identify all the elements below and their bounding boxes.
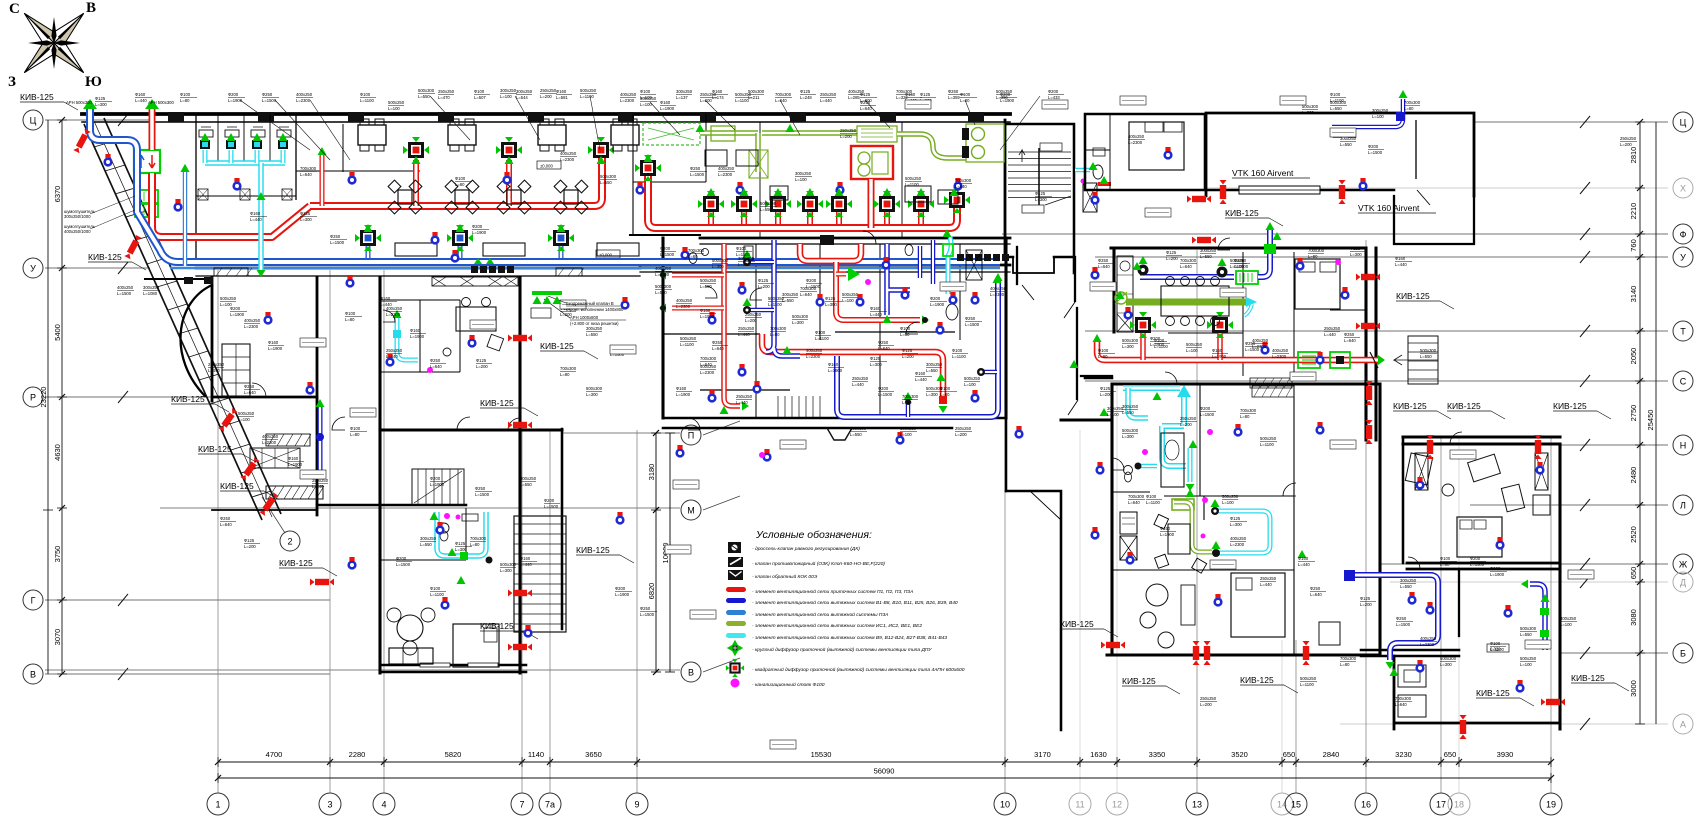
svg-text:L=300: L=300 <box>870 362 882 367</box>
svg-text:Ф250: Ф250 <box>244 384 255 389</box>
svg-text:L=440: L=440 <box>1324 332 1336 337</box>
duct red right main <box>1097 342 1378 360</box>
svg-text:Ф160: Ф160 <box>520 556 531 561</box>
KIV-125 valve 20 <box>1535 435 1542 459</box>
svg-text:L=1100: L=1100 <box>360 98 374 103</box>
svg-text:КИВ-125: КИВ-125 <box>480 621 514 631</box>
svg-text:500x250: 500x250 <box>680 336 697 341</box>
svg-text:300x250: 300x250 <box>1122 404 1139 409</box>
axis line Г <box>45 594 330 606</box>
svg-text:L=550: L=550 <box>1400 584 1412 589</box>
svg-text:Ф100: Ф100 <box>1154 338 1165 343</box>
svg-text:7: 7 <box>519 800 524 810</box>
axis line Р <box>45 391 230 403</box>
svg-text:L=200: L=200 <box>1180 422 1192 427</box>
arrow cyan stair toilet <box>1081 162 1098 184</box>
KS250 fitting <box>1264 222 1276 254</box>
svg-text:L=1100: L=1100 <box>680 342 694 347</box>
svg-text:Ф100: Ф100 <box>1146 494 1157 499</box>
svg-text:КИВ-125: КИВ-125 <box>279 558 313 568</box>
svg-text:500x250: 500x250 <box>700 278 717 283</box>
svg-text:15: 15 <box>1291 800 1301 810</box>
sewer stacks magenta <box>427 259 1341 519</box>
svg-text:L=550: L=550 <box>782 298 794 303</box>
svg-text:Ф: Ф <box>1680 229 1687 239</box>
green box cyan mid <box>943 244 958 320</box>
svg-text:3000: 3000 <box>1629 680 1638 697</box>
svg-text:L=1500: L=1500 <box>660 252 675 257</box>
svg-text:700x300: 700x300 <box>1340 656 1357 661</box>
svg-text:300x250: 300x250 <box>1372 108 1389 113</box>
svg-text:КИВ-125: КИВ-125 <box>1225 208 1259 218</box>
green damper box <box>711 126 735 141</box>
svg-text:+0,000: +0,000 <box>599 253 613 258</box>
svg-text:КИВ-125: КИВ-125 <box>198 444 232 454</box>
svg-text:L=100: L=100 <box>238 417 250 422</box>
green arrow red stub <box>318 147 327 155</box>
axis line Т right <box>1085 325 1668 337</box>
svg-text:18: 18 <box>1454 800 1464 810</box>
svg-text:Ф100: Ф100 <box>455 176 466 181</box>
duct green IS1 run a <box>700 130 758 136</box>
hatch strip below cafe toilets <box>266 434 311 446</box>
svg-text:L=396: L=396 <box>996 95 1008 100</box>
svg-text:L=1900: L=1900 <box>615 592 630 597</box>
svg-text:L=440: L=440 <box>520 562 532 567</box>
axis bubble У left <box>23 258 43 278</box>
diffuser 4APN mid 2 <box>731 191 757 217</box>
svg-text:L=300: L=300 <box>926 392 938 397</box>
KIV-125 valve 12 <box>1192 237 1216 244</box>
svg-text:L=640: L=640 <box>712 346 724 351</box>
green boxes on red main <box>1298 352 1350 368</box>
svg-text:L=2300: L=2300 <box>700 370 715 375</box>
svg-text:L=1900: L=1900 <box>288 462 303 467</box>
svg-text:- элемент вентиляционной сети: - элемент вентиляционной сети вытяжной с… <box>752 611 888 618</box>
svg-text:L=550: L=550 <box>1340 142 1352 147</box>
svg-text:Ф200: Ф200 <box>472 224 483 229</box>
svg-text:КИВ-125: КИВ-125 <box>1393 401 1427 411</box>
svg-text:300x250: 300x250 <box>1400 578 1417 583</box>
sofa lower-left block <box>389 648 433 664</box>
svg-text:L=507: L=507 <box>474 95 486 100</box>
duct cyan right trunk <box>1162 396 1186 466</box>
svg-text:L=1900: L=1900 <box>1160 532 1175 537</box>
svg-text:400x250: 400x250 <box>718 166 735 171</box>
duct navy drop 3 <box>918 246 923 278</box>
svg-text:500x300: 500x300 <box>1520 626 1537 631</box>
axis bubble 12 <box>1106 793 1128 815</box>
svg-text:Ф100: Ф100 <box>430 586 441 591</box>
svg-text:L=1100: L=1100 <box>1154 344 1168 349</box>
wall courtyard right upper <box>952 418 1006 491</box>
svg-text:L=550: L=550 <box>420 542 432 547</box>
diffusers navy loop <box>904 368 986 405</box>
svg-text:L=440: L=440 <box>738 332 750 337</box>
KIV-125 valve 18 <box>1366 420 1373 444</box>
svg-text:Ф200: Ф200 <box>1490 566 1501 571</box>
X-strip bench below cafe <box>432 277 518 286</box>
kitchen equipment boxes <box>705 150 958 204</box>
svg-text:L=550: L=550 <box>586 332 598 337</box>
wall cafe bottom right part <box>640 264 1010 267</box>
stairs bottom-right extension <box>1398 665 1426 717</box>
level tags cafe <box>537 161 620 258</box>
duct red branch b <box>672 306 724 311</box>
diffuser 4APN mid 1 <box>698 191 724 217</box>
svg-text:L=100: L=100 <box>500 94 512 99</box>
value labels extra <box>208 92 1537 667</box>
svg-text:Ф125: Ф125 <box>1360 596 1371 601</box>
duct green S-curve <box>897 134 966 158</box>
label VTK 160 Airvent 2 <box>1358 203 1436 213</box>
cafe benches row <box>395 243 639 256</box>
axis line В middle <box>45 669 680 671</box>
svg-text:L=2300: L=2300 <box>1420 642 1435 647</box>
svg-text:L=80: L=80 <box>345 317 355 322</box>
svg-text:56090: 56090 <box>874 767 895 776</box>
partition right bedroom <box>1085 114 1110 190</box>
legend title <box>755 529 872 541</box>
duct red mid riser 4 <box>807 212 813 224</box>
axis bubble 7а <box>539 793 561 815</box>
wall bottom-right v1459 <box>1458 569 1460 636</box>
KIV-125 valve 25 <box>1541 699 1565 706</box>
svg-text:L=200: L=200 <box>1100 392 1112 397</box>
svg-text:500x300: 500x300 <box>586 386 603 391</box>
svg-text:250x250: 250x250 <box>738 326 755 331</box>
kitchen table right main block <box>1161 277 1229 326</box>
arrows red right main <box>1093 334 1386 368</box>
duct cyan riser 1 <box>203 150 208 163</box>
svg-text:700x300: 700x300 <box>902 394 919 399</box>
svg-text:L=1100: L=1100 <box>815 336 829 341</box>
arrow red center drop <box>922 316 929 325</box>
desk upper room lower-left <box>456 298 504 351</box>
bed lower-left block <box>453 624 499 667</box>
svg-text:КИВ-125: КИВ-125 <box>1571 673 1605 683</box>
svg-text:2210: 2210 <box>1629 203 1638 220</box>
svg-text:250x250: 250x250 <box>1260 576 1277 581</box>
duct cyan lower-left U <box>437 512 486 556</box>
svg-text:Ф125: Ф125 <box>1100 386 1111 391</box>
svg-text:КИВ-125: КИВ-125 <box>576 545 610 555</box>
svg-text:L=1500: L=1500 <box>878 392 893 397</box>
duct steel P3A parallel <box>170 267 1000 269</box>
svg-text:Условные обозначения:: Условные обозначения: <box>755 529 872 541</box>
KIV-125 valve 15 <box>1356 274 1380 281</box>
svg-text:Ф125: Ф125 <box>476 358 487 363</box>
label KIV-125 #17 <box>1240 675 1298 693</box>
entrance bay notch <box>827 428 852 440</box>
svg-text:Ф125: Ф125 <box>1350 246 1361 251</box>
svg-text:L=1900: L=1900 <box>268 346 283 351</box>
entrance ramp diagonal <box>84 118 281 520</box>
svg-text:3520: 3520 <box>1231 750 1248 759</box>
svg-text:L=550: L=550 <box>926 368 938 373</box>
duct red mid riser 3 <box>775 212 781 224</box>
legend row 3 <box>728 570 818 580</box>
svg-text:Ф250: Ф250 <box>948 89 959 94</box>
svg-text:АРН 1000x800: АРН 1000x800 <box>570 315 599 320</box>
svg-text:700x300: 700x300 <box>955 178 972 183</box>
bed right bedroom <box>1129 122 1184 170</box>
svg-text:3350: 3350 <box>1149 750 1166 759</box>
svg-text:19: 19 <box>1546 800 1556 810</box>
svg-text:700x300: 700x300 <box>700 356 717 361</box>
svg-text:500x250: 500x250 <box>1520 656 1537 661</box>
cyan big arrow up <box>1177 385 1191 397</box>
axis bubble 14 <box>1271 793 1293 815</box>
diffuser 4APN top 3 <box>588 137 614 163</box>
axis bubble Ж right <box>1673 554 1693 574</box>
svg-text:500x300: 500x300 <box>850 426 867 431</box>
label KIV-125 #6 <box>279 558 337 576</box>
svg-text:L=1100: L=1100 <box>952 354 966 359</box>
svg-text:L=440: L=440 <box>1395 262 1407 267</box>
KIV-125 valve 1 <box>73 129 90 153</box>
svg-text:L=300: L=300 <box>1302 110 1314 115</box>
svg-text:Ф160: Ф160 <box>660 100 671 105</box>
svg-text:L=322: L=322 <box>896 95 908 100</box>
top labels row2 <box>438 89 1064 100</box>
svg-text:500x250: 500x250 <box>996 89 1013 94</box>
svg-text:L=640: L=640 <box>800 292 812 297</box>
green arrows scattered <box>181 154 1399 676</box>
svg-text:400x250: 400x250 <box>1230 536 1247 541</box>
bathtub lower right-middle <box>1124 433 1185 487</box>
svg-text:Ф100: Ф100 <box>474 89 485 94</box>
axis bubble Н right <box>1673 435 1693 455</box>
AP400 marker bathroom <box>1098 176 1111 186</box>
svg-text:L=80: L=80 <box>180 98 190 103</box>
duct navy loop riser <box>906 400 911 417</box>
svg-text:L=640: L=640 <box>1310 592 1322 597</box>
svg-text:L=2300: L=2300 <box>1272 354 1287 359</box>
svg-text:L=100: L=100 <box>842 298 854 303</box>
svg-text:КИВ-125: КИВ-125 <box>1476 688 1510 698</box>
legend row 10 <box>726 659 965 677</box>
svg-text:АРН 500x300: АРН 500x300 <box>148 100 175 105</box>
wall lower-left P-line <box>380 428 562 431</box>
duct steel riser cafe <box>183 170 188 266</box>
svg-text:700x300: 700x300 <box>560 366 577 371</box>
wall cafe right end <box>1004 120 1007 257</box>
axis bubble Т right <box>1673 321 1693 341</box>
axis bubble 17 <box>1430 793 1452 815</box>
svg-text:L=1500: L=1500 <box>1368 150 1383 155</box>
diffusers navy right apt <box>1138 256 1228 278</box>
label KIV-125 #3 <box>171 394 229 412</box>
svg-text:С: С <box>1680 376 1687 386</box>
wall right bedroom block <box>1085 114 1205 190</box>
label KIV-125 #20 <box>1060 619 1118 637</box>
staircase right of main block <box>1394 336 1438 384</box>
wall diag entry <box>1030 491 1061 520</box>
svg-text:500x250: 500x250 <box>238 411 255 416</box>
svg-text:L=550: L=550 <box>760 207 772 212</box>
green AHU dashed box <box>643 123 700 145</box>
svg-text:L=200: L=200 <box>1620 142 1632 147</box>
svg-text:17: 17 <box>1436 800 1446 810</box>
diffuser 4APN mid right end <box>944 187 970 213</box>
svg-text:L=359: L=359 <box>948 95 960 100</box>
svg-text:L=1500: L=1500 <box>396 562 411 567</box>
duct red stub <box>320 155 325 206</box>
svg-text:КИВ-125: КИВ-125 <box>480 398 514 408</box>
duct green right apt <box>1126 299 1248 306</box>
svg-text:L=640: L=640 <box>878 346 890 351</box>
diffuser 4APN top 2 <box>496 137 522 163</box>
red diffusers right main <box>1130 312 1233 338</box>
svg-text:23220: 23220 <box>39 387 48 408</box>
svg-text:L=100: L=100 <box>795 177 807 182</box>
svg-text:L=300: L=300 <box>1035 197 1047 202</box>
axis line П middle <box>562 432 680 434</box>
svg-text:L=440: L=440 <box>208 368 220 373</box>
svg-text:L=300: L=300 <box>1122 344 1134 349</box>
svg-text:- квадратный диффузор приточно: - квадратный диффузор приточной (вытяжно… <box>752 666 965 673</box>
svg-text:L=1900: L=1900 <box>1490 572 1505 577</box>
axis bubble Л right <box>1673 495 1693 515</box>
wall mid apartments right <box>1004 238 1007 418</box>
svg-text:L=1900: L=1900 <box>700 314 715 319</box>
label KIV-125 #2 <box>88 252 146 270</box>
KIV-125 valve 11 <box>1187 196 1211 203</box>
svg-text:L=640: L=640 <box>244 390 256 395</box>
cafe tables row top <box>358 119 639 151</box>
svg-text:L=2300: L=2300 <box>1128 140 1143 145</box>
svg-text:КИВ-125: КИВ-125 <box>1396 291 1430 301</box>
svg-text:Ф125: Ф125 <box>1035 191 1046 196</box>
axis bubble Р left <box>23 387 43 407</box>
svg-text:Ф200: Ф200 <box>430 476 441 481</box>
svg-text:Ф200: Ф200 <box>878 386 889 391</box>
svg-text:В: В <box>688 667 694 677</box>
svg-text:Ф125: Ф125 <box>1230 516 1241 521</box>
svg-text:L=80: L=80 <box>902 400 912 405</box>
svg-text:700x300: 700x300 <box>470 536 487 541</box>
svg-text:Ф250: Ф250 <box>475 486 486 491</box>
wall bottom-right extension <box>1394 656 1560 729</box>
round table lower-left block <box>387 608 435 655</box>
AHU green unit left <box>134 150 160 173</box>
svg-text:L=1100: L=1100 <box>1300 682 1314 687</box>
svg-text:- элемент вентиляционной сети: - элемент вентиляционной сети вытяжных с… <box>752 599 958 606</box>
axis bubble 11 <box>1069 793 1091 815</box>
staircase lower-left internal <box>412 469 464 505</box>
duct green IS1 run b <box>762 130 857 136</box>
KIV-125 valve 24 <box>1460 715 1467 739</box>
svg-text:- дроссель-клапан равного регу: - дроссель-клапан равного регулирования … <box>752 546 860 552</box>
svg-text:700x300: 700x300 <box>1128 494 1145 499</box>
legend row 5 <box>726 598 958 606</box>
svg-text:L=2300: L=2300 <box>560 157 575 162</box>
svg-text:300x250: 300x250 <box>926 362 943 367</box>
diffusers navy branches <box>743 250 752 314</box>
partition kitchen mid <box>760 122 902 238</box>
terrace window band <box>1239 186 1320 194</box>
axis line 7 <box>521 430 523 793</box>
svg-text:L=1500: L=1500 <box>1470 562 1485 567</box>
svg-text:700x300: 700x300 <box>1395 696 1412 701</box>
duct navy loop branch <box>984 370 997 375</box>
svg-text:500x250: 500x250 <box>1186 342 1203 347</box>
svg-text:Ф125: Ф125 <box>870 356 881 361</box>
axis line У <box>45 262 150 274</box>
wall terrace extension <box>1394 196 1474 244</box>
svg-text:L=300: L=300 <box>1350 252 1362 257</box>
svg-text:VTK 160 Airvent: VTK 160 Airvent <box>1232 168 1294 178</box>
svg-text:Ф250: Ф250 <box>712 340 723 345</box>
svg-text:300x250: 300x250 <box>1200 248 1217 253</box>
dimension chain left <box>39 117 67 677</box>
svg-text:700x300: 700x300 <box>1308 248 1325 253</box>
svg-text:500x300: 500x300 <box>760 201 777 206</box>
green filter box <box>857 126 897 142</box>
svg-text:250x250: 250x250 <box>540 88 557 93</box>
svg-text:L=550: L=550 <box>520 482 532 487</box>
svg-text:700x300: 700x300 <box>688 248 705 253</box>
svg-text:L=200: L=200 <box>540 94 552 99</box>
svg-text:L=2300: L=2300 <box>806 354 821 359</box>
svg-text:L=300: L=300 <box>1230 522 1242 527</box>
svg-text:Ф100: Ф100 <box>640 89 651 94</box>
svg-text:Ф250: Ф250 <box>220 516 231 521</box>
svg-text:300x250: 300x250 <box>143 285 160 290</box>
duct red mid riser 6 <box>884 212 890 224</box>
svg-text:L=2300: L=2300 <box>1230 542 1245 547</box>
svg-text:L=550: L=550 <box>600 180 612 185</box>
label KIV-125 #14 <box>1447 401 1505 419</box>
duct cyan stub stair toilet <box>1075 168 1090 173</box>
svg-text:L=1100: L=1100 <box>1490 647 1504 652</box>
svg-text:2480: 2480 <box>1629 467 1638 484</box>
svg-text:L=100: L=100 <box>1560 622 1572 627</box>
partitions mid apartments <box>756 244 960 418</box>
svg-text:300x250: 300x250 <box>586 326 603 331</box>
arrow navy drop 4b <box>994 273 1003 281</box>
svg-text:L=2300: L=2300 <box>718 172 733 177</box>
duct red mid riser 7 <box>918 212 924 224</box>
svg-text:700x300: 700x300 <box>1240 408 1257 413</box>
svg-text:3170: 3170 <box>1034 750 1051 759</box>
svg-text:Ф125: Ф125 <box>800 89 811 94</box>
svg-text:Ф160: Ф160 <box>380 296 391 301</box>
diffuser 4APN mid 7 <box>908 191 934 217</box>
wall lower-left v317 <box>316 277 319 515</box>
svg-text:250x250: 250x250 <box>852 376 869 381</box>
KIV-125 valve 7 <box>508 335 532 342</box>
fixtures mid block <box>689 245 982 281</box>
svg-text:L=300: L=300 <box>586 392 598 397</box>
svg-text:L=300: L=300 <box>792 320 804 325</box>
axis bubble Г left <box>23 590 43 610</box>
svg-text:250x250: 250x250 <box>736 394 753 399</box>
svg-text:9: 9 <box>634 800 639 810</box>
svg-text:1140: 1140 <box>528 750 544 759</box>
svg-text:500x250: 500x250 <box>580 88 597 93</box>
svg-text:500x300: 500x300 <box>600 174 617 179</box>
svg-text:Ф160: Ф160 <box>556 89 567 94</box>
door swings passage <box>1022 285 1078 415</box>
duct cyan trunk down <box>258 163 264 270</box>
svg-text:300x250: 300x250 <box>420 536 437 541</box>
wall piers top <box>168 112 984 122</box>
svg-text:L=433: L=433 <box>1048 95 1060 100</box>
duct cyan right leg <box>1188 448 1193 482</box>
axis line В <box>45 668 330 680</box>
